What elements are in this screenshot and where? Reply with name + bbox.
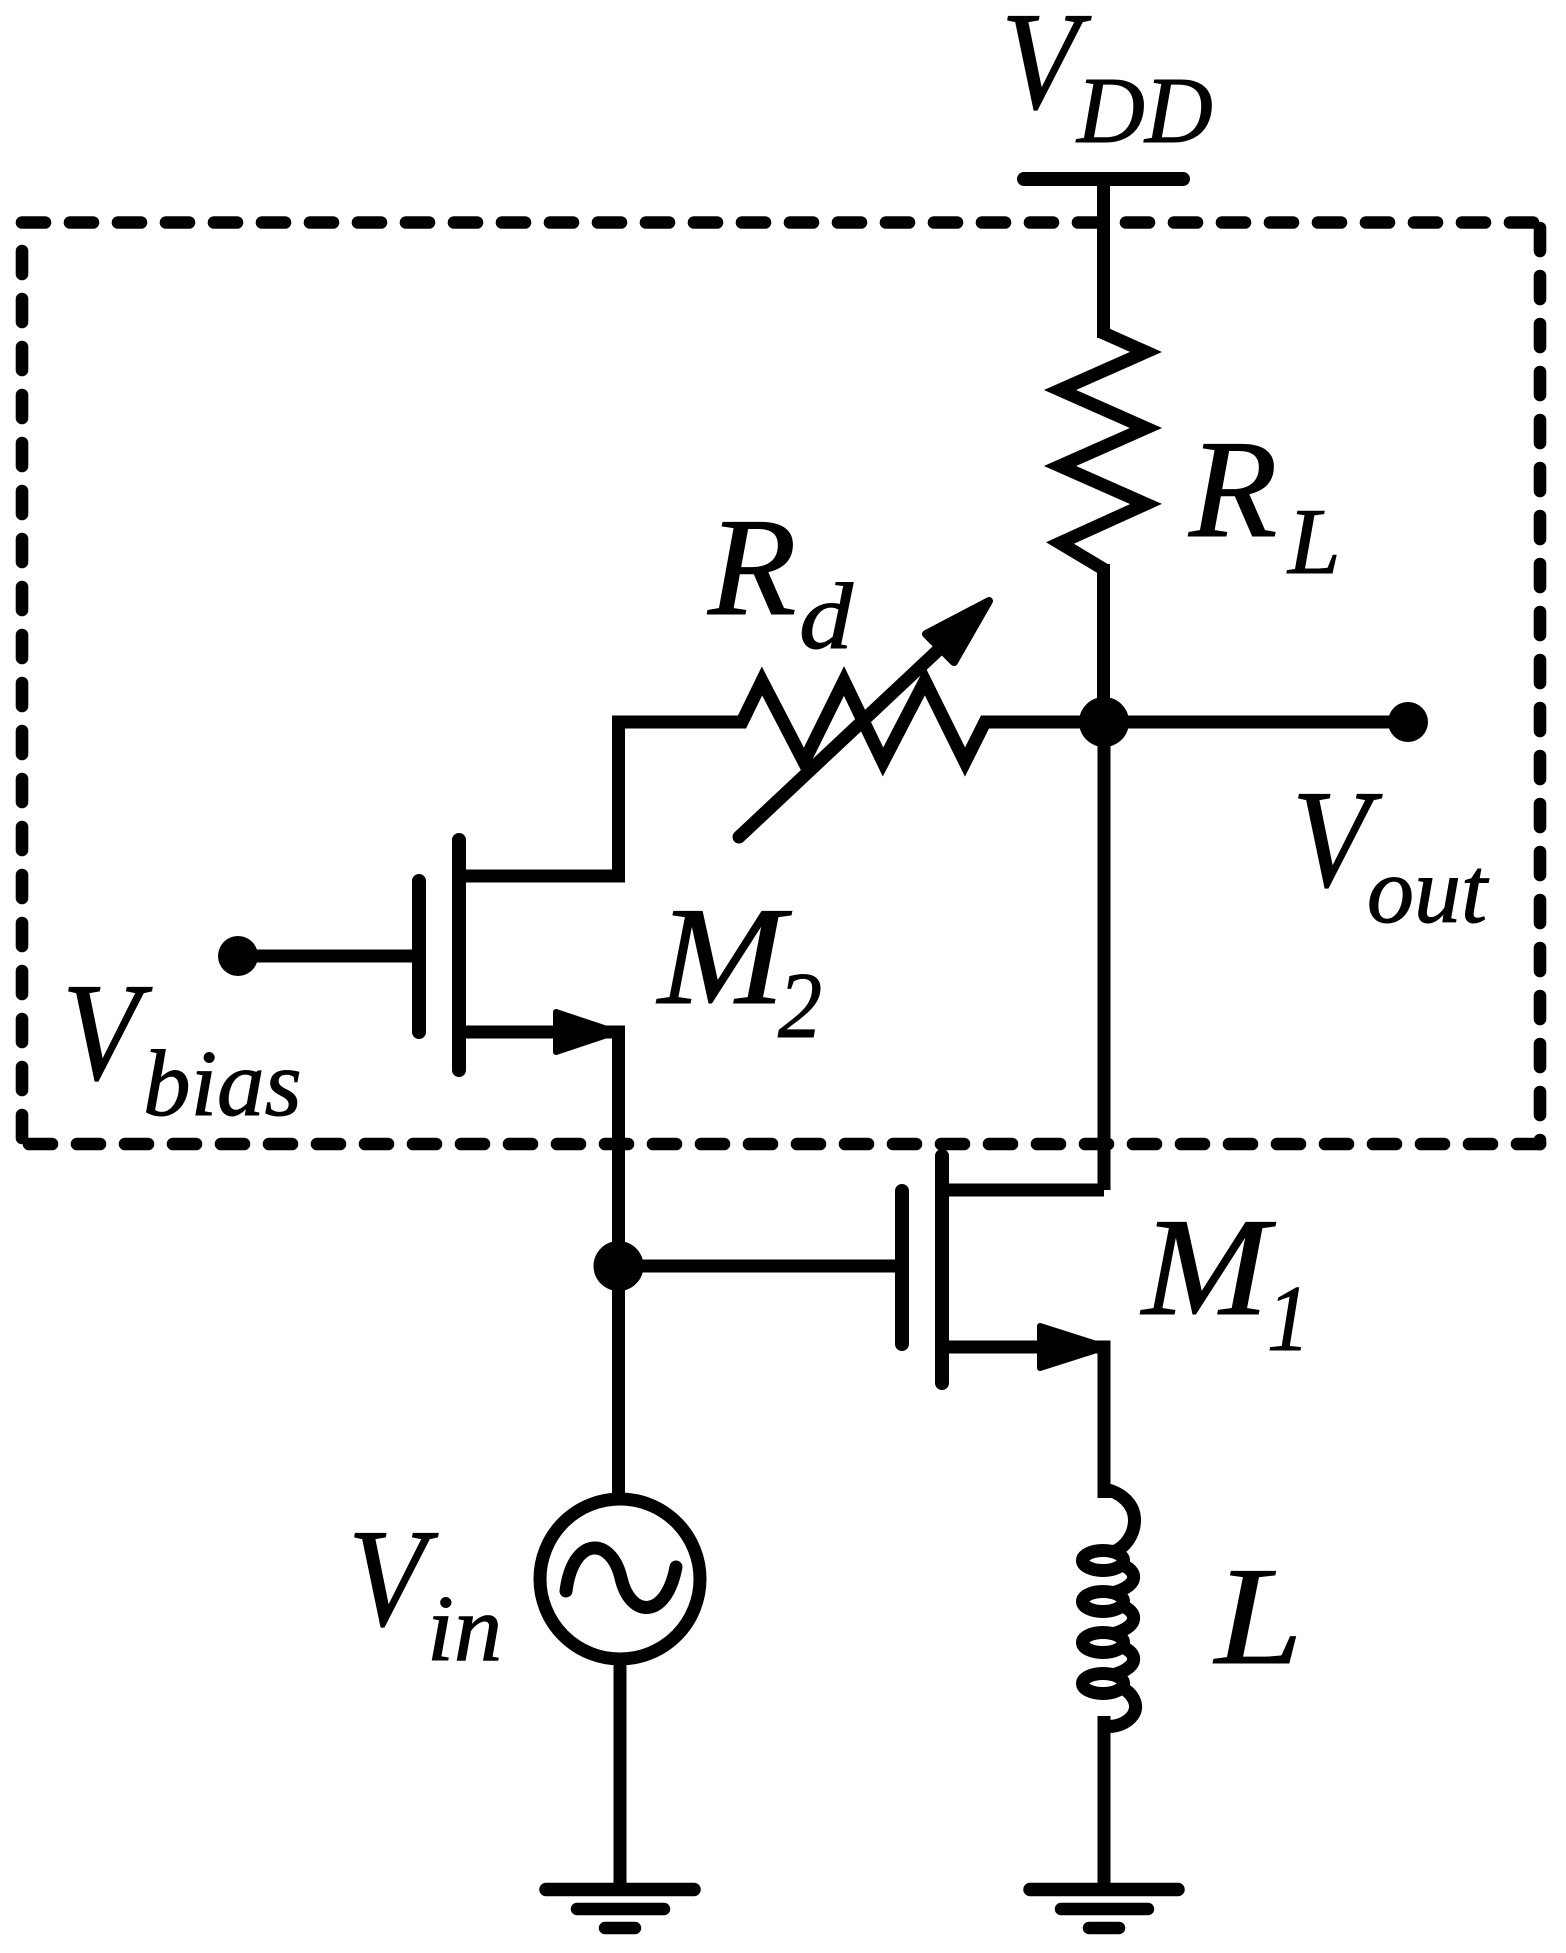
wire Vin to ground: [614, 1655, 627, 1889]
VDD supply rail bar: [1024, 172, 1183, 186]
transistor M2 gate bar: [412, 881, 426, 1032]
dashed box (tunable resistor block): [22, 223, 1540, 1145]
Rd variable arrow: [739, 639, 950, 837]
svg-text:V: V: [62, 955, 152, 1110]
wire Vbias to M2 gate: [238, 950, 412, 963]
M2 drain wire: [459, 870, 619, 883]
wire M2 drain up to Rd left: [459, 722, 742, 876]
wire inductor to ground: [1098, 1716, 1111, 1889]
svg-text:R: R: [707, 490, 797, 645]
Vout terminal dot: [1388, 702, 1428, 742]
label Vin: [348, 1501, 502, 1681]
label Vout: [1292, 762, 1489, 943]
M2 source wire with arrow, down to node A: [459, 1032, 619, 1266]
svg-text:bias: bias: [143, 1032, 302, 1136]
Vbias terminal dot: [218, 936, 258, 976]
label M2: [656, 879, 822, 1058]
transistor M1 gate bar: [895, 1191, 909, 1344]
wire RL bottom to output node: [1097, 564, 1110, 722]
label Vbias: [62, 955, 302, 1136]
label Rd: [707, 490, 854, 669]
wire VDD rail to RL top: [1097, 179, 1110, 338]
svg-text:M: M: [656, 879, 793, 1034]
ground (left): [546, 1890, 694, 1929]
wire output node down to M1 drain: [1098, 722, 1111, 1190]
svg-text:in: in: [427, 1577, 502, 1681]
svg-text:L: L: [1286, 490, 1341, 594]
Vin AC source circle: [540, 1499, 700, 1659]
svg-text:R: R: [1188, 412, 1278, 567]
node A junction dot (M2 source / M1 gate / Vin): [594, 1241, 644, 1291]
wire Rd right to output node: [985, 716, 1104, 729]
transistor M2 channel bar: [452, 840, 466, 1070]
svg-text:d: d: [799, 565, 854, 669]
wire node A down to Vin source: [612, 1266, 625, 1505]
svg-text:2: 2: [778, 954, 822, 1058]
label M1: [1140, 1190, 1310, 1371]
svg-text:out: out: [1367, 839, 1489, 943]
svg-text:V: V: [348, 1501, 438, 1656]
svg-text:1: 1: [1267, 1267, 1310, 1371]
M1 drain wire: [942, 1184, 1104, 1197]
inductor L coil: [1083, 1489, 1136, 1726]
Vin sine symbol: [566, 1548, 676, 1607]
svg-text:DD: DD: [1075, 59, 1213, 163]
wire node to Vout terminal: [1104, 716, 1408, 729]
svg-text:M: M: [1140, 1190, 1277, 1345]
label RL: [1188, 412, 1341, 594]
node: output junction dot: [1079, 697, 1129, 747]
wire node A to M1 gate: [619, 1260, 897, 1273]
M1 source wire with arrow, down to inductor: [942, 1347, 1104, 1498]
svg-text:L: L: [1213, 1539, 1303, 1694]
resistor Rd (variable) zigzag: [736, 681, 991, 762]
transistor M1 channel bar: [935, 1156, 949, 1383]
label VDD: [1001, 0, 1213, 163]
ground (right): [1030, 1890, 1178, 1929]
resistor RL: [1060, 327, 1146, 575]
